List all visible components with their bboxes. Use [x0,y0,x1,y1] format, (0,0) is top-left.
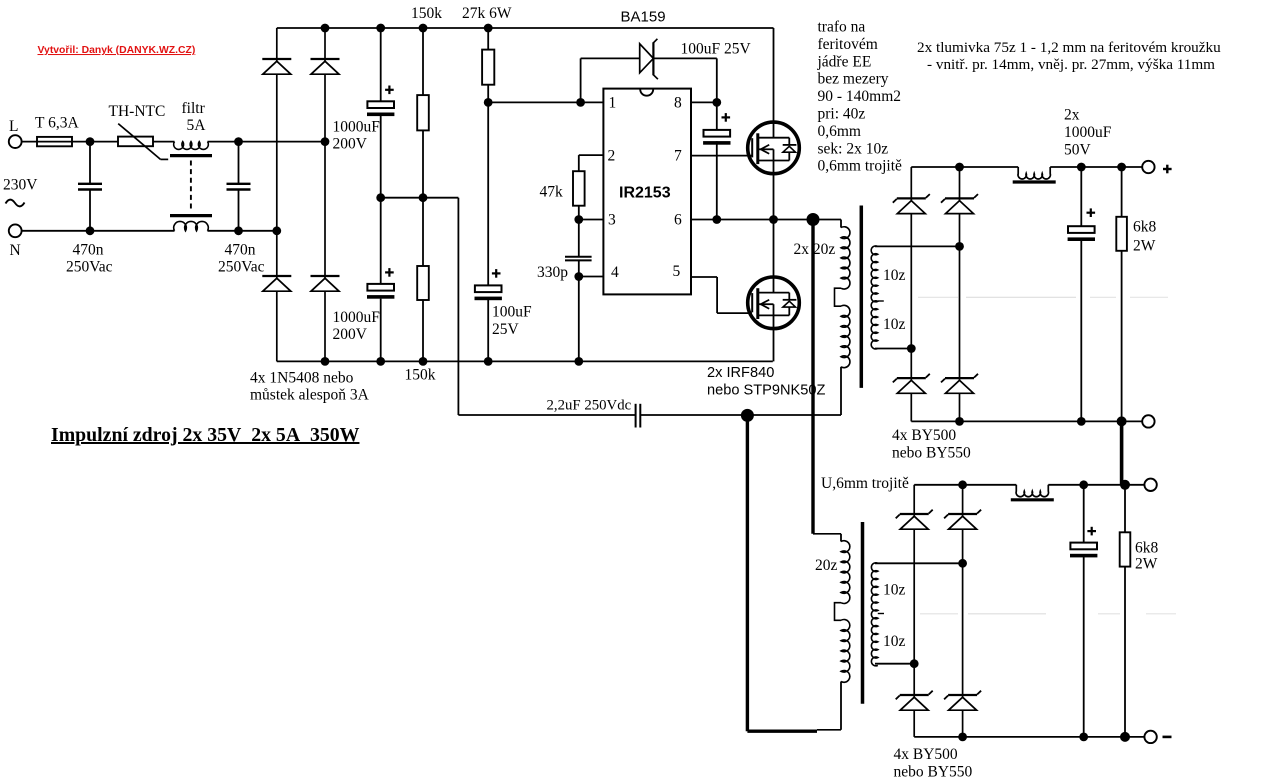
node [574,357,583,366]
svg-text:nebo BY550: nebo BY550 [894,764,973,781]
label 4x BY500 (2) [894,746,973,781]
diode D11 BY500 [944,485,981,697]
wire pin5 to gate [691,277,752,313]
svg-text:100uF 25V: 100uF 25V [681,41,752,58]
node [1117,163,1126,172]
svg-text:2: 2 [608,148,616,165]
svg-text:feritovém: feritovém [818,36,878,53]
capacitor C4 100uF 25V (bootstrap) [681,41,752,220]
transformer T1 primary 2x 20z [794,220,850,416]
capacitor C8 1000uF 50V [1070,485,1097,737]
wire [22,141,118,143]
terminal 0V (1) [1142,415,1154,427]
svg-text:6k8: 6k8 [1133,219,1157,236]
wire VS to T2 primary (thick) [813,220,841,534]
svg-text:N: N [10,242,21,259]
node [910,659,919,668]
svg-text:10z: 10z [883,633,906,650]
note tlumivka data [917,39,1221,73]
svg-text:470n: 470n [73,242,104,259]
note transformer winding data [817,19,903,175]
capacitor 470n 250Vac (2) [218,142,265,276]
node [419,24,428,33]
wire midpoint to coupling cap [381,198,459,415]
svg-text:4x 1N5408 nebo: 4x 1N5408 nebo [250,370,354,387]
node [1077,417,1086,426]
node [574,272,583,281]
svg-text:2,2uF 250Vdc: 2,2uF 250Vdc [547,398,632,414]
svg-text:200V: 200V [333,326,368,343]
svg-text:10z: 10z [883,267,906,284]
node [321,24,330,33]
label 2x IRF840 [707,365,826,399]
svg-text:20z: 20z [815,557,838,574]
diode D12 BY500 [896,664,933,737]
wire pin3 [579,219,604,221]
svg-text:8: 8 [674,95,682,112]
svg-text:47k: 47k [540,184,564,201]
label 230V [3,177,38,207]
terminal 0V (2) [1144,479,1156,491]
capacitor C2 1000uF 200V [333,198,395,362]
thermistor TH-NTC [109,103,169,159]
node coupling junction [741,409,754,422]
terminal N [9,224,22,259]
node [484,98,493,107]
wire Q1 source [773,160,775,219]
wire Q2 drain [773,220,775,293]
wire pin4 [579,276,604,278]
wire [208,230,277,232]
op-amp U1 IR2153 (driver IC) [603,89,691,295]
transformer T2 primary 20z [815,534,850,730]
node [376,193,385,202]
node [576,98,585,107]
transformer T1 secondary 10z+10z [871,246,959,349]
svg-text:5A: 5A [187,117,207,134]
svg-text:- vnitř. pr. 14mm, vněj. pr. 2: - vnitř. pr. 14mm, vněj. pr. 27mm, výška… [927,56,1215,73]
wire output2 - rail [914,736,1144,738]
svg-text:10z: 10z [883,316,906,333]
svg-text:2W: 2W [1133,238,1156,255]
svg-text:25V: 25V [492,321,520,338]
svg-text:150k: 150k [411,5,442,22]
svg-text:0,6mm trojitě: 0,6mm trojitě [818,158,903,175]
svg-text:filtr: filtr [182,100,206,117]
diode D10 BY500 [896,485,933,664]
svg-text:2x tlumivka 75z 1 - 1,2 mm na: 2x tlumivka 75z 1 - 1,2 mm na feritovém … [917,39,1221,56]
wire pin7 to gate [691,155,752,157]
node [86,137,95,146]
svg-text:1000uF: 1000uF [1064,124,1112,141]
node [234,137,243,146]
wire [208,141,326,143]
node [1079,480,1088,489]
resistor R1 150k [411,5,442,198]
svg-text:10z: 10z [883,582,906,599]
wire Q2 source [773,315,775,361]
diode D2 1N5408 [311,28,340,142]
svg-text:250Vac: 250Vac [66,259,113,276]
node [234,226,243,235]
node [712,215,721,224]
node [321,357,330,366]
capacitor C3 100uF 25V (Vcc) [475,102,533,361]
capacitor C6 2,2uF 250Vdc [547,398,641,428]
wire (erased ghost) secondary2 center tap [920,613,1176,615]
transformer T2 core [861,522,865,704]
svg-text:nebo BY550: nebo BY550 [892,445,971,462]
common-mode choke filtr 5A [170,100,212,231]
wire 0V bottom rail [277,360,773,362]
node [419,357,428,366]
svg-text:2x: 2x [1064,107,1080,124]
transistor Q2 IRF840 (low side) [748,277,800,329]
diode D8 BY500 [893,349,930,422]
svg-text:3: 3 [608,212,616,229]
transistor Q1 IRF840 (high side) [748,122,800,174]
svg-text:90 - 140mm2: 90 - 140mm2 [818,88,902,105]
wire pin1 supply line [488,101,603,103]
node [958,480,967,489]
svg-text:TH-NTC: TH-NTC [109,103,166,120]
wire output2 0V rail [914,484,1144,486]
svg-text:0,6mm: 0,6mm [818,123,862,140]
svg-text:nebo STP9NK50Z: nebo STP9NK50Z [707,383,826,399]
wire coupling line left [458,414,635,416]
svg-text:T 6,3A: T 6,3A [35,115,79,132]
svg-text:jádře EE: jádře EE [817,53,872,70]
svg-text:L: L [9,118,18,135]
svg-text:4x BY500: 4x BY500 [894,746,958,763]
capacitor C1 1000uF 200V [333,28,395,198]
inductor L2 (tlumivka) [1016,485,1048,497]
svg-text:50V: 50V [1064,142,1092,159]
svg-text:pri: 40z: pri: 40z [818,106,866,123]
svg-text:4: 4 [611,264,619,281]
diode D5 BA159 [581,9,717,103]
wire pin4 to ground rail [578,277,580,362]
svg-text:U,6mm trojitě: U,6mm trojitě [821,475,909,492]
diode D6 BY500 [893,167,930,349]
svg-text:4x BY500: 4x BY500 [892,427,956,444]
wire [22,230,175,232]
svg-text:2x IRF840: 2x IRF840 [707,365,774,381]
node [272,226,281,235]
wire T2 return (thick) [747,415,841,731]
svg-text:1000uF: 1000uF [333,309,381,326]
wire [153,141,175,143]
node [376,357,385,366]
svg-text:bez mezery: bez mezery [818,71,889,88]
diode D3 1N5408 [262,231,291,362]
node [1077,163,1086,172]
capacitor 470n 250Vac (1) [66,142,113,276]
node [1117,416,1127,426]
svg-text:sek: 2x 10z: sek: 2x 10z [818,140,889,157]
resistor R2 150k [405,198,436,384]
svg-text:250Vac: 250Vac [218,259,265,276]
diode D1 1N5408 [262,28,291,231]
diode D7 BY500 [941,167,978,380]
svg-text:1: 1 [609,95,617,112]
svg-text:100uF: 100uF [492,304,532,321]
node [1120,732,1130,742]
svg-text:27k 6W: 27k 6W [462,5,512,22]
resistor R5 6k8 2W [1116,167,1156,421]
svg-text:můstek alespoň 3A: můstek alespoň 3A [250,387,370,404]
svg-text:470n: 470n [225,242,256,259]
node [907,344,916,353]
svg-text:6: 6 [674,212,682,229]
svg-text:Vytvořil: Danyk (DANYK.WZ.CZ): Vytvořil: Danyk (DANYK.WZ.CZ) [38,45,196,56]
node [958,733,967,742]
node [574,215,583,224]
resistor R3 27k 6W [462,5,512,102]
inductor L1 (tlumivka) [1018,167,1050,179]
svg-text:330p: 330p [537,264,568,281]
node [1079,733,1088,742]
node [955,242,964,251]
svg-text:Impulzní zdroj 2x 35V 2x 5A: Impulzní zdroj 2x 35V 2x 5A 350W [51,424,360,446]
svg-text:7: 7 [674,148,682,165]
transformer T2 secondary 10z+10z [871,563,962,666]
resistor R4 47k [540,155,604,219]
node [376,24,385,33]
label 2x 1000uF 50V [1064,107,1112,159]
node [769,215,778,224]
diode D9 BY500 [941,374,978,422]
label 4x 1N5408 [250,370,370,404]
capacitor C7 1000uF 50V [1068,167,1096,421]
label 4x BY500 (1) [892,427,971,462]
svg-text:6k8: 6k8 [1135,540,1159,557]
wire Q1 drain [773,28,775,138]
node [955,417,964,426]
node [712,98,721,107]
capacitor C5 330p [537,220,592,282]
wire coupling line right [640,414,841,416]
wire +325V top rail [277,27,774,29]
wire pin6 output node [691,219,841,221]
node VS (half-bridge output) [807,213,820,226]
svg-text:230V: 230V [3,177,38,194]
svg-text:BA159: BA159 [621,9,666,26]
node [321,137,330,146]
wire output1 - rail [911,420,1142,422]
svg-text:trafo na: trafo na [818,19,866,36]
node [484,24,493,33]
node [86,226,95,235]
svg-text:200V: 200V [333,136,368,153]
svg-text:1000uF: 1000uF [333,119,381,136]
svg-text:5: 5 [673,263,681,280]
node [1120,480,1130,490]
node [955,163,964,172]
svg-text:IR2153: IR2153 [619,185,671,202]
transformer T1 core [860,206,864,388]
terminal L [9,118,22,148]
terminal -35V [1144,731,1171,743]
diode D13 BY500 [944,691,981,737]
svg-text:2W: 2W [1135,556,1158,573]
svg-text:150k: 150k [405,367,436,384]
fuse T 6,3A [35,115,79,147]
resistor R6 6k8 2W [1120,485,1159,737]
diode D4 1N5408 [311,142,340,362]
wire (erased ghost) secondary1 center tap [918,296,1168,298]
node [958,559,967,568]
wire output1 + rail [911,166,1142,168]
wire pin8 [691,101,717,103]
wire thick link 0V [1120,421,1124,484]
node [484,357,493,366]
terminal +35V [1142,161,1171,174]
node [419,193,428,202]
